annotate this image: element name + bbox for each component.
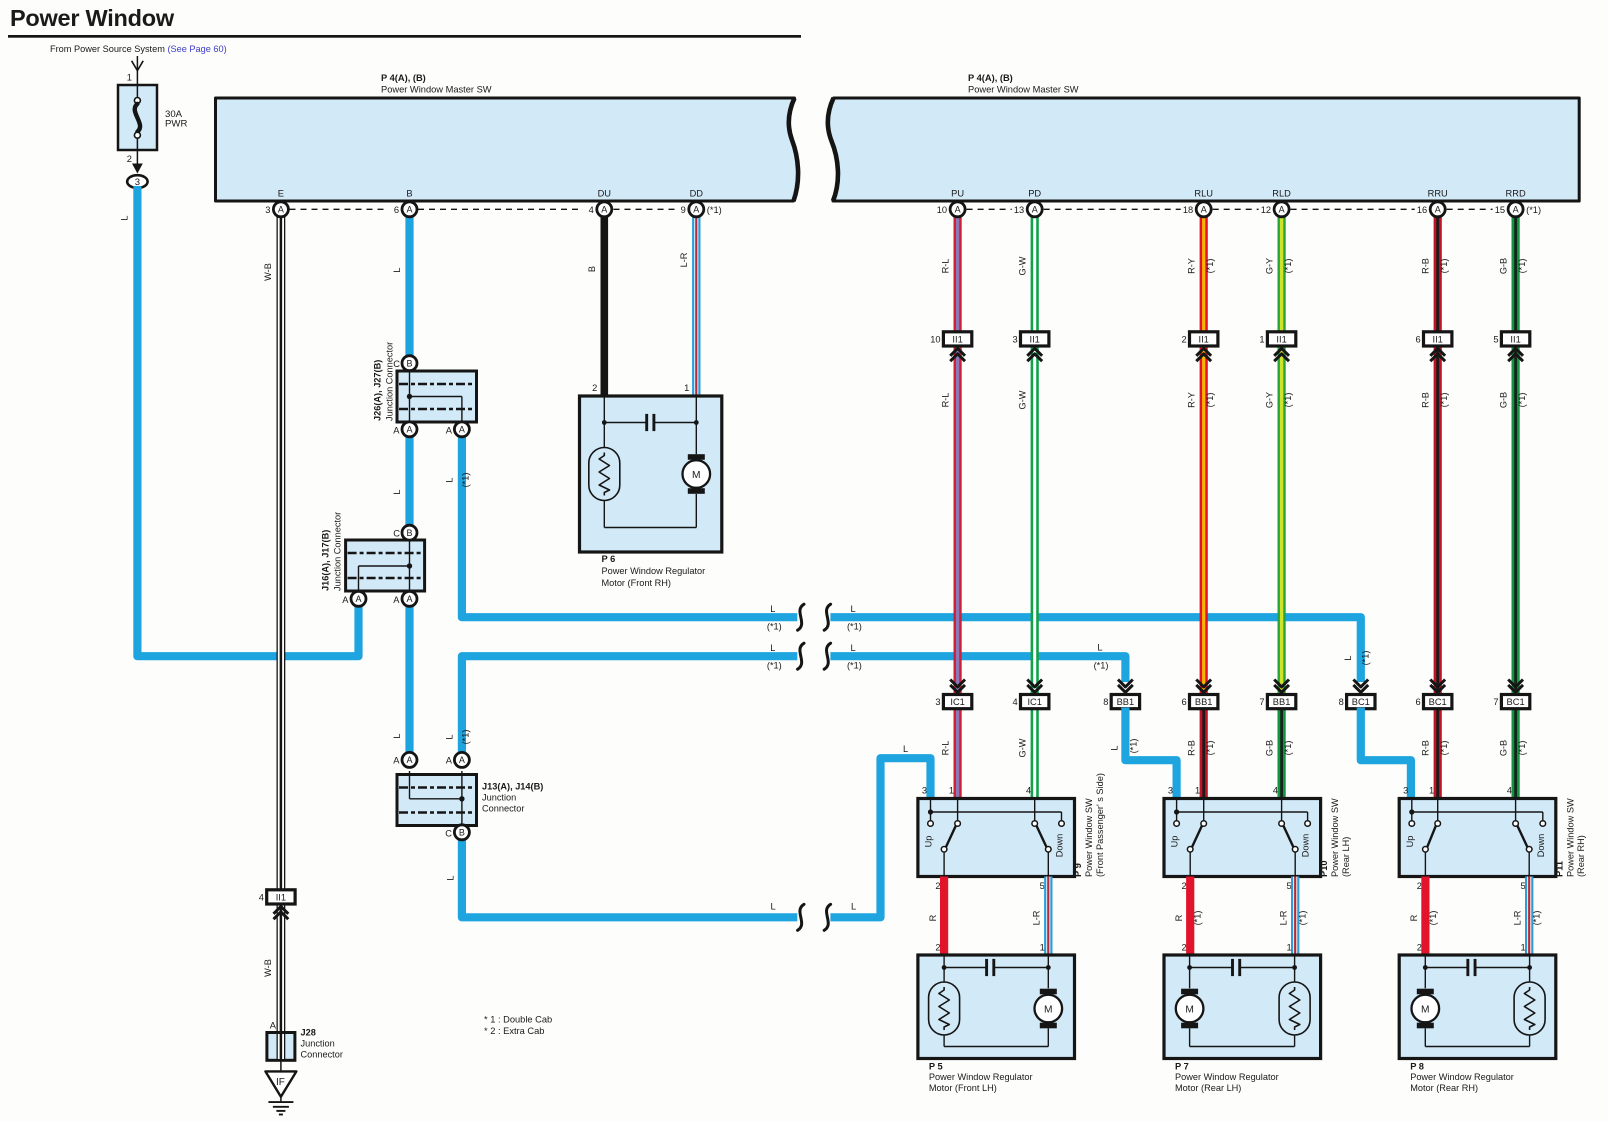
svg-text:J16(A), J17(B): J16(A), J17(B): [321, 530, 331, 591]
svg-text:R: R: [928, 914, 938, 921]
power window SW P10 rear LH: [1164, 786, 1321, 891]
svg-text:15: 15: [1495, 205, 1505, 215]
svg-text:(*1): (*1): [1193, 911, 1203, 926]
svg-text:4: 4: [1013, 697, 1018, 707]
svg-text:II1: II1: [952, 334, 962, 344]
svg-text:(Front Passenger' s Side): (Front Passenger' s Side): [1095, 773, 1105, 877]
wire L (*1) from J26 to BC1 branch - vertical part: [444, 429, 797, 617]
P8 regulator motor rear RH box: [1399, 955, 1556, 1059]
junction connector J13(A), J14(B): [397, 771, 543, 829]
svg-text:Motor (Front RH): Motor (Front RH): [602, 578, 671, 588]
svg-text:1: 1: [949, 786, 954, 796]
svg-text:A: A: [1032, 205, 1038, 215]
svg-text:Up: Up: [1170, 836, 1180, 848]
upper feed wire right part to BC1: [767, 617, 1361, 682]
svg-text:6: 6: [1416, 334, 1421, 344]
svg-text:PWR: PWR: [165, 119, 187, 130]
svg-text:DU: DU: [598, 189, 611, 199]
labels L (*1) at BC1 vertical: [1343, 651, 1371, 666]
svg-text:Power Window Master SW: Power Window Master SW: [968, 85, 1079, 95]
svg-text:8: 8: [1103, 697, 1108, 707]
wire L-R switch to motor: [1512, 877, 1541, 956]
note: double cab / extra cab: [484, 1015, 552, 1037]
motor pin numbers: [1417, 943, 1526, 953]
svg-text:W-B: W-B: [263, 959, 273, 977]
svg-text:A: A: [446, 426, 453, 436]
svg-text:A: A: [406, 205, 412, 215]
wire G-B down to switch pin: [1498, 702, 1527, 801]
wire L J26 to J16: [392, 429, 410, 526]
junction connector J28: [267, 1028, 343, 1061]
wire L from pin B down to J26: [392, 209, 410, 356]
svg-text:L: L: [851, 902, 856, 912]
svg-text:(*1): (*1): [1205, 259, 1215, 274]
svg-text:Motor (Rear LH): Motor (Rear LH): [1175, 1083, 1241, 1093]
junction connector J16(A), J17(B): [321, 512, 425, 594]
svg-text:G-B: G-B: [1264, 740, 1274, 756]
connector BB1 pin 6: [1182, 680, 1218, 709]
svg-text:2: 2: [127, 154, 132, 164]
left block pin letters: [278, 189, 703, 199]
svg-text:16: 16: [1417, 205, 1427, 215]
svg-text:B: B: [406, 359, 412, 369]
svg-text:RRD: RRD: [1506, 189, 1526, 199]
svg-text:(*1): (*1): [1298, 911, 1308, 926]
svg-text:J28: J28: [301, 1028, 316, 1038]
wire R-B down to switch pin: [1187, 702, 1216, 801]
svg-text:L-R: L-R: [1032, 910, 1042, 925]
svg-text:18: 18: [1183, 205, 1193, 215]
svg-text:2: 2: [935, 943, 940, 953]
svg-text:A: A: [342, 595, 349, 605]
fuse 30A PWR: [118, 85, 187, 150]
svg-text:R-B: R-B: [1421, 258, 1431, 274]
svg-text:Connector: Connector: [301, 1050, 343, 1060]
svg-text:P 7: P 7: [1175, 1062, 1189, 1072]
svg-text:5: 5: [1521, 881, 1526, 891]
wire W-B from II1 to J28: [263, 902, 281, 1033]
svg-text:R-L: R-L: [940, 393, 950, 408]
svg-text:(*1): (*1): [767, 661, 782, 671]
svg-text:(*1): (*1): [707, 205, 722, 215]
svg-text:BB1: BB1: [1117, 697, 1135, 707]
svg-text:2: 2: [935, 881, 940, 891]
svg-text:(*1): (*1): [847, 661, 862, 671]
P6 power window regulator motor front RH: [580, 396, 722, 552]
svg-text:Power Window SW: Power Window SW: [1565, 798, 1575, 877]
break symbols upper feed wire: [798, 604, 831, 630]
svg-text:(*1): (*1): [1283, 393, 1293, 408]
wire L J16 to J13: [392, 599, 410, 756]
svg-text:G-W: G-W: [1018, 738, 1028, 757]
svg-text:BB1: BB1: [1195, 697, 1213, 707]
svg-text:R-Y: R-Y: [1187, 258, 1197, 274]
svg-text:(*1): (*1): [1283, 259, 1293, 274]
svg-text:BC1: BC1: [1352, 697, 1370, 707]
svg-text:10: 10: [930, 334, 940, 344]
svg-text:C: C: [393, 359, 400, 369]
svg-text:RRU: RRU: [1428, 189, 1448, 199]
svg-text:12: 12: [1261, 205, 1271, 215]
svg-text:L: L: [120, 215, 130, 220]
svg-text:P11: P11: [1554, 861, 1564, 877]
svg-text:Power Window Regulator: Power Window Regulator: [929, 1072, 1033, 1082]
svg-text:M: M: [1044, 1004, 1053, 1015]
svg-text:13: 13: [1014, 205, 1024, 215]
svg-text:Motor (Rear RH): Motor (Rear RH): [1410, 1083, 1478, 1093]
svg-text:6: 6: [1416, 697, 1421, 707]
J16 pin B top: [393, 525, 417, 540]
P5 regulator motor front LH box: [918, 955, 1075, 1059]
svg-text:4: 4: [1507, 786, 1512, 796]
svg-text:R-L: R-L: [940, 741, 950, 756]
svg-text:IC1: IC1: [950, 697, 964, 707]
break symbols lower feed wire: [767, 604, 862, 669]
svg-text:1: 1: [1287, 943, 1292, 953]
svg-text:BB1: BB1: [1273, 697, 1291, 707]
svg-text:P 9: P 9: [1073, 863, 1083, 877]
svg-text:(*1): (*1): [1532, 911, 1542, 926]
svg-text:L: L: [445, 875, 455, 880]
svg-text:RLD: RLD: [1272, 189, 1291, 199]
svg-text:3: 3: [935, 697, 940, 707]
wire R-Y from pin RLU down through II1: [1187, 209, 1216, 701]
svg-text:L: L: [444, 477, 454, 482]
connector IC1 pin 3: [935, 680, 971, 709]
connector BB1 pin 7: [1259, 680, 1295, 709]
wire L from J13 to P9 via breaks: [445, 744, 930, 917]
svg-text:L: L: [850, 643, 855, 653]
svg-text:B: B: [406, 189, 412, 199]
svg-text:B: B: [459, 828, 465, 838]
svg-text:L: L: [770, 643, 775, 653]
svg-text:(*1): (*1): [1428, 911, 1438, 926]
svg-text:Up: Up: [924, 836, 934, 848]
svg-text:(*1): (*1): [847, 622, 862, 632]
svg-text:P 8: P 8: [1410, 1062, 1424, 1072]
svg-text:R: R: [1174, 914, 1184, 921]
P8 regulator motor rear RH motor: [1412, 989, 1440, 1029]
wire L from fuse down and right up to J16 pin A: [120, 186, 359, 656]
svg-text:M: M: [692, 470, 701, 481]
J26 bottom pin circles: [402, 422, 469, 437]
svg-text:P 5: P 5: [929, 1062, 943, 1072]
svg-text:(Rear RH): (Rear RH): [1576, 835, 1586, 877]
svg-text:* 1 : Double Cab: * 1 : Double Cab: [484, 1015, 552, 1025]
svg-text:Junction Connector: Junction Connector: [333, 512, 343, 591]
connector BB1 pin 8: [1103, 680, 1139, 709]
wire W-B from pin E down to connector II1: [263, 209, 281, 890]
svg-text:A: A: [1279, 205, 1285, 215]
svg-text:Power Window Regulator: Power Window Regulator: [1175, 1072, 1279, 1082]
svg-text:1: 1: [127, 72, 132, 82]
connector II1 pin 6: [1416, 332, 1452, 361]
svg-text:A: A: [1513, 205, 1519, 215]
svg-text:A: A: [406, 594, 412, 604]
svg-text:(*1): (*1): [1094, 661, 1109, 671]
svg-text:1: 1: [1521, 943, 1526, 953]
svg-text:7: 7: [1259, 697, 1264, 707]
svg-text:C: C: [393, 529, 400, 539]
wire L-R switch to motor: [1278, 877, 1307, 956]
svg-text:Power Window: Power Window: [10, 5, 175, 31]
svg-text:M: M: [1421, 1004, 1430, 1015]
P6 motor: [683, 454, 711, 494]
svg-text:A: A: [406, 755, 412, 765]
svg-text:A: A: [270, 1021, 277, 1031]
wire G-W from pin PD down through II1: [1018, 209, 1035, 701]
svg-text:R-B: R-B: [1421, 392, 1431, 408]
wire L-R from pin DD down to P6: [679, 209, 697, 397]
svg-text:3: 3: [1013, 334, 1018, 344]
svg-text:8: 8: [1339, 697, 1344, 707]
svg-text:II1: II1: [276, 892, 286, 902]
svg-text:A: A: [1201, 205, 1207, 215]
svg-text:(*1): (*1): [1129, 739, 1139, 754]
svg-text:Power Window SW: Power Window SW: [1330, 798, 1340, 877]
svg-text:From Power Source System (See: From Power Source System (See Page 60): [50, 44, 227, 54]
svg-text:2: 2: [592, 383, 597, 393]
svg-text:L: L: [392, 489, 402, 494]
svg-text:4: 4: [589, 205, 594, 215]
P6 lamp: [589, 448, 620, 501]
wire G-Y from pin RLD down through II1: [1264, 209, 1293, 701]
P7 regulator motor rear LH lamp: [1279, 982, 1310, 1035]
svg-text:RLU: RLU: [1194, 189, 1213, 199]
svg-text:L: L: [444, 734, 454, 739]
svg-text:Power Window SW: Power Window SW: [1084, 798, 1094, 877]
svg-text:Down: Down: [1301, 834, 1311, 858]
svg-text:7: 7: [1493, 697, 1498, 707]
svg-text:6: 6: [394, 205, 399, 215]
svg-text:3: 3: [265, 205, 270, 215]
svg-text:(*1): (*1): [1517, 259, 1527, 274]
connector IC1 pin 4: [1013, 680, 1049, 709]
svg-text:Power Window Master SW: Power Window Master SW: [381, 85, 492, 95]
svg-text:L-R: L-R: [1278, 910, 1288, 925]
svg-text:L: L: [903, 744, 908, 754]
svg-text:L: L: [392, 733, 402, 738]
svg-text:5: 5: [1040, 881, 1045, 891]
svg-text:Connector: Connector: [482, 804, 524, 814]
svg-text:6: 6: [1182, 697, 1187, 707]
svg-text:2: 2: [1417, 881, 1422, 891]
svg-text:A: A: [406, 425, 412, 435]
P9 front passenger side label: [1073, 773, 1105, 877]
P5 regulator motor front LH lamp: [929, 982, 960, 1035]
svg-text:Junction Connector: Junction Connector: [385, 342, 395, 421]
right block pin letters: [951, 189, 1526, 199]
svg-text:G-B: G-B: [1498, 740, 1508, 756]
svg-text:2: 2: [1182, 881, 1187, 891]
J13 pins A top: [393, 752, 469, 767]
svg-text:IF: IF: [276, 1077, 285, 1088]
svg-text:3: 3: [1168, 786, 1173, 796]
connector II1 pin 1: [1259, 332, 1295, 361]
title: Power Window: [10, 5, 175, 31]
J26 pins A bottom: [393, 426, 453, 436]
svg-text:Up: Up: [1405, 836, 1415, 848]
wire R-B down to switch pin: [1421, 702, 1450, 801]
wire B from pin DU down to P6: [587, 209, 605, 397]
svg-text:1: 1: [684, 383, 689, 393]
break symbols bottom wire: [798, 904, 831, 930]
svg-text:IC1: IC1: [1027, 697, 1041, 707]
wire R switch to motor: [1409, 877, 1438, 956]
svg-text:(*1): (*1): [1361, 651, 1371, 666]
svg-text:2: 2: [1417, 943, 1422, 953]
motor pin numbers: [935, 943, 1044, 953]
svg-text:2: 2: [1182, 334, 1187, 344]
wire L-R switch to motor: [1032, 877, 1049, 956]
svg-text:5: 5: [1493, 334, 1498, 344]
svg-text:A: A: [955, 205, 961, 215]
wire R-L from pin PU down through II1: [940, 209, 957, 701]
svg-text:P10: P10: [1319, 860, 1329, 877]
svg-text:B: B: [587, 266, 597, 272]
svg-text:4: 4: [259, 892, 264, 902]
svg-text:(*1): (*1): [1439, 741, 1449, 756]
svg-text:L-R: L-R: [679, 252, 689, 267]
svg-text:(*1): (*1): [461, 730, 471, 745]
svg-text:A: A: [393, 595, 400, 605]
svg-text:4: 4: [1026, 786, 1031, 796]
svg-text:Down: Down: [1055, 834, 1065, 858]
connector II1 pin 4 on W-B wire: [259, 890, 295, 919]
J16 pins A bottom: [342, 595, 400, 605]
J26 pin B top: [393, 356, 417, 371]
wire R-B from pin RRU down through II1: [1421, 209, 1450, 701]
svg-text:J13(A), J14(B): J13(A), J14(B): [482, 782, 543, 792]
svg-text:L: L: [1343, 655, 1353, 660]
wire L from BC1 to P11 pin 3: [1361, 708, 1411, 799]
svg-text:II1: II1: [1510, 334, 1520, 344]
title underline: [8, 35, 801, 38]
svg-text:R-B: R-B: [1421, 740, 1431, 756]
power window SW P9 front passenger: [918, 786, 1075, 891]
wire G-B from pin RRD down through II1: [1498, 209, 1527, 701]
svg-text:9: 9: [681, 205, 686, 215]
wire R switch to motor: [1174, 877, 1203, 956]
svg-text:E: E: [278, 189, 284, 199]
svg-text:5: 5: [1287, 881, 1292, 891]
svg-text:C: C: [445, 828, 452, 838]
svg-text:A: A: [355, 594, 361, 604]
svg-text:L: L: [770, 604, 775, 614]
svg-text:1: 1: [1429, 786, 1434, 796]
svg-text:II1: II1: [1199, 334, 1209, 344]
left block pin connectors: [265, 202, 722, 217]
svg-text:G-W: G-W: [1018, 390, 1028, 409]
svg-text:10: 10: [937, 205, 947, 215]
svg-text:P 4(A), (B): P 4(A), (B): [968, 73, 1013, 83]
svg-text:4: 4: [1273, 786, 1278, 796]
svg-text:J26(A), J27(B): J26(A), J27(B): [373, 360, 383, 421]
svg-text:II1: II1: [1030, 334, 1040, 344]
subtitle: From Power Source System (See Page 60): [50, 44, 227, 54]
right block pin connectors: [937, 202, 1541, 217]
svg-text:PU: PU: [951, 189, 964, 199]
svg-text:(*1): (*1): [1517, 741, 1527, 756]
svg-text:(*1): (*1): [461, 473, 471, 488]
svg-text:W-B: W-B: [263, 263, 273, 281]
connector II1 pin 2: [1182, 332, 1218, 361]
svg-text:L-R: L-R: [1512, 910, 1522, 925]
svg-text:A: A: [693, 205, 699, 215]
wire R-L down to switch pin: [940, 702, 957, 801]
P11 rear RH side label: [1554, 798, 1586, 877]
svg-text:3: 3: [1403, 786, 1408, 796]
svg-text:L: L: [1110, 745, 1120, 750]
fuse output arrow and node 3: [127, 150, 148, 188]
svg-text:A: A: [601, 205, 607, 215]
P8 regulator motor rear RH lamp: [1514, 982, 1545, 1035]
wire L (*1) horizontal to BB1 with J13 branch: [444, 656, 1125, 756]
svg-text:BC1: BC1: [1429, 697, 1447, 707]
P6 pin numbers and labels: [592, 383, 705, 588]
svg-text:G-Y: G-Y: [1264, 258, 1274, 274]
svg-text:A: A: [459, 755, 465, 765]
P7 regulator motor rear LH labels: [1175, 1062, 1279, 1093]
svg-text:R-L: R-L: [940, 259, 950, 274]
svg-text:(Rear LH): (Rear LH): [1341, 837, 1351, 877]
svg-text:G-B: G-B: [1498, 392, 1508, 408]
svg-text:PD: PD: [1028, 189, 1041, 199]
svg-text:Motor (Front LH): Motor (Front LH): [929, 1083, 997, 1093]
svg-text:G-Y: G-Y: [1264, 392, 1274, 408]
svg-text:3: 3: [922, 786, 927, 796]
svg-text:A: A: [393, 756, 400, 766]
P5 regulator motor front LH labels: [929, 1062, 1033, 1093]
svg-text:A: A: [1435, 205, 1441, 215]
svg-text:M: M: [1185, 1004, 1194, 1015]
svg-text:L: L: [770, 902, 775, 912]
svg-text:(*1): (*1): [1439, 393, 1449, 408]
svg-text:BC1: BC1: [1507, 697, 1525, 707]
svg-text:L: L: [1097, 643, 1102, 653]
svg-text:2: 2: [1182, 943, 1187, 953]
svg-text:R-B: R-B: [1187, 740, 1197, 756]
connector BC1 pin 8: [1339, 680, 1375, 709]
connector II1 pin 10: [930, 332, 972, 361]
wire R switch to motor: [928, 877, 944, 956]
svg-text:Junction: Junction: [301, 1039, 335, 1049]
J13 pin B bottom: [445, 825, 469, 840]
svg-text:A: A: [393, 426, 400, 436]
connector II1 pin 5: [1493, 332, 1529, 361]
svg-text:P 4(A), (B): P 4(A), (B): [381, 73, 426, 83]
connector BC1 pin 6: [1416, 680, 1452, 709]
labels L (*1) at BB1 corner: [1094, 643, 1109, 671]
power window master SW P4 left block: [216, 73, 799, 201]
svg-text:(*1): (*1): [767, 622, 782, 632]
svg-text:1: 1: [1195, 786, 1200, 796]
svg-text:A: A: [446, 756, 453, 766]
svg-text:(*1): (*1): [1205, 393, 1215, 408]
P7 regulator motor rear LH box: [1164, 955, 1321, 1059]
svg-text:B: B: [406, 528, 412, 538]
connector II1 pin 3: [1013, 332, 1049, 361]
P7 regulator motor rear LH motor: [1176, 989, 1204, 1029]
P5 regulator motor front LH motor: [1035, 989, 1063, 1029]
power window SW P11 rear RH: [1399, 786, 1556, 891]
wire G-B down to switch pin: [1264, 702, 1293, 801]
svg-text:II1: II1: [1433, 334, 1443, 344]
svg-text:(*1): (*1): [1526, 205, 1541, 215]
svg-text:L: L: [392, 267, 402, 272]
P8 regulator motor rear RH labels: [1410, 1062, 1514, 1093]
junction connector J26(A), J27(B): [373, 342, 477, 425]
